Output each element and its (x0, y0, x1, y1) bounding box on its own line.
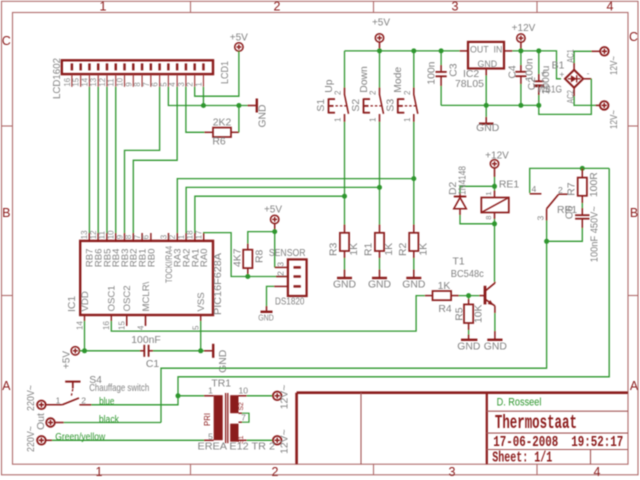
LCD1 pin 6 pad and stem (158, 63, 160, 70)
wire IC1 pin 17 (RA0) to sensor data (204, 233, 288, 277)
terminal 12V~ (bottom) (600, 101, 609, 110)
svg-text:5: 5 (192, 325, 201, 330)
svg-text:B: B (630, 206, 638, 220)
ground symbol GND (R3) (337, 277, 352, 279)
svg-text:4: 4 (607, 0, 614, 14)
terminal 12V~ (TR1 top) (273, 392, 282, 401)
junction rail/+12V/C4 (518, 48, 523, 53)
svg-text:1: 1 (369, 117, 378, 122)
svg-text:2: 2 (558, 185, 563, 195)
connector SENSOR body (288, 259, 307, 296)
svg-text:12V~: 12V~ (609, 110, 620, 129)
IC1 top pin 2 stub (176, 233, 178, 241)
svg-text:2K2: 2K2 (213, 117, 232, 128)
wire IC1 VSS pin down (200, 321, 202, 351)
junction S3 column / RA3 line (411, 176, 416, 181)
ground symbol GND (R1) (372, 277, 387, 279)
switch S3 (Mode) (413, 88, 415, 95)
SENSOR pin 3 stub (275, 266, 288, 268)
svg-text:B1: B1 (552, 60, 565, 71)
resistor R3 body (1K) (344, 225, 346, 233)
svg-text:1: 1 (56, 395, 61, 405)
svg-text:+5V: +5V (264, 205, 282, 216)
title block row line 1 (487, 410, 628, 412)
svg-text:12V~: 12V~ (280, 429, 291, 454)
junction rail/S2 (377, 48, 382, 53)
svg-text:220V~: 220V~ (26, 385, 37, 411)
connector LCD1 body (62, 60, 213, 74)
relay coil pin 8 to junction (494, 213, 496, 220)
svg-text:LCD1602: LCD1602 (52, 58, 63, 99)
IC1 top pin 11 stub (106, 233, 108, 241)
wire IC1 VDD pin to rail (84, 321, 86, 351)
title block divider thin (360, 393, 362, 465)
svg-text:8: 8 (484, 215, 493, 219)
svg-text:R8: R8 (255, 249, 266, 263)
svg-text:1: 1 (177, 234, 186, 239)
svg-text:GND: GND (478, 59, 498, 69)
svg-text:GND: GND (484, 341, 507, 352)
svg-text:1: 1 (194, 82, 203, 86)
wire rail down to S1 (344, 51, 346, 88)
svg-text:C: C (629, 30, 638, 44)
wire R6 to GND line (238, 106, 240, 133)
terminal 220V~ (neutral) (37, 436, 46, 445)
svg-text:+5V: +5V (230, 33, 248, 44)
svg-text:S1: S1 (316, 99, 327, 112)
svg-text:PRI: PRI (203, 413, 212, 426)
svg-text:A: A (630, 379, 639, 393)
svg-text:12: 12 (98, 78, 107, 87)
wire +12V to relay coil pin 1 (494, 177, 496, 191)
ground symbol GND (sensor) (261, 311, 273, 313)
ground symbol GND (T1 emitter) (487, 339, 502, 341)
ground symbol GND (LCD) (248, 105, 257, 107)
svg-text:1K: 1K (349, 243, 360, 256)
svg-text:100nF 450V~: 100nF 450V~ (589, 206, 600, 262)
diode D2 1N4148 (460, 186, 495, 193)
svg-text:7: 7 (133, 234, 142, 239)
wire LCD pin 12 to IC1 pin 11 (106, 87, 108, 233)
junction S2 column / RA2 line (377, 185, 382, 190)
junction VSS / gnd wire (198, 348, 203, 353)
capacitor C3 body (440, 51, 442, 65)
title block divider thick (486, 393, 488, 465)
svg-text:100R: 100R (589, 172, 600, 197)
supply +5V symbol (IC1) (71, 347, 79, 355)
svg-text:9: 9 (124, 82, 133, 86)
LCD1 pin 14 pad and stem (88, 63, 90, 70)
svg-text:GND: GND (218, 350, 229, 373)
frame row ticks right (628, 125, 638, 127)
capacitor C6 body (581, 196, 583, 203)
svg-text:11: 11 (107, 79, 116, 87)
svg-text:R4: R4 (438, 304, 452, 315)
wire coil pin8 junction to T1 collector (494, 224, 496, 282)
ground symbol GND (IC1) (204, 350, 213, 352)
svg-text:9: 9 (115, 234, 124, 239)
wire +5V to R8 top and sensor pin 3 (274, 224, 276, 232)
svg-text:6: 6 (142, 234, 151, 239)
switch S2 (Down) (379, 88, 381, 95)
IC1 top pin 9 stub (124, 233, 126, 241)
svg-text:OUT: OUT (470, 45, 489, 55)
svg-text:3: 3 (452, 0, 459, 14)
svg-text:2: 2 (274, 0, 281, 14)
switch S4 pin 1 stub (46, 404, 62, 406)
ground symbol GND (psu) (479, 122, 494, 124)
svg-text:OSC2: OSC2 (122, 285, 133, 311)
svg-text:4: 4 (532, 184, 537, 194)
LCD1 pin 11 pad and stem (115, 63, 117, 70)
svg-text:MCLR\: MCLR\ (141, 281, 152, 311)
svg-text:15: 15 (118, 321, 127, 330)
IC1 bottom pin 4 stub (145, 315, 147, 326)
wire contact pin4 net down to TR1 primary (178, 168, 609, 395)
svg-text:WB1G: WB1G (537, 85, 562, 96)
svg-text:78L05: 78L05 (455, 79, 484, 90)
junction +12V / D2 (492, 184, 497, 189)
svg-text:+12V: +12V (485, 150, 509, 161)
wire +5V to LCD pin 2 (195, 51, 239, 96)
svg-text:16: 16 (102, 321, 111, 330)
TR1 pin 1 stub (204, 395, 214, 397)
junction coil pin8 / D2 / T1 collector (492, 221, 497, 226)
ground symbol GND (R5) (461, 339, 477, 341)
junction gnd rail / C4 (518, 103, 523, 108)
TR1 pin 2 stub and wire to 12V~ terminal (239, 439, 247, 441)
svg-text:IN: IN (494, 45, 503, 55)
wire rail down to S2 (379, 51, 381, 88)
svg-text:16: 16 (63, 78, 72, 87)
svg-text:T1: T1 (453, 257, 465, 268)
title block outer lines (297, 391, 628, 394)
svg-text:GND: GND (457, 341, 480, 352)
svg-text:C6: C6 (565, 206, 576, 220)
wire junction to TR1 pin 1 (178, 395, 204, 397)
relay contact pin 3 stub (546, 209, 548, 221)
IC1 bottom pin 15 stub (126, 315, 128, 326)
svg-text:15: 15 (72, 77, 81, 86)
svg-text:TR1: TR1 (211, 378, 231, 389)
svg-text:8: 8 (124, 234, 133, 239)
svg-text:GND: GND (368, 279, 391, 290)
svg-text:RA0: RA0 (199, 249, 210, 268)
svg-text:Mode: Mode (393, 67, 404, 93)
svg-text:2: 2 (275, 271, 285, 276)
svg-text:8: 8 (133, 82, 142, 86)
IC1 bottom pin 5 stub (200, 315, 202, 321)
svg-text:C3: C3 (448, 63, 459, 77)
resistor R2 body (1K) (413, 225, 415, 233)
svg-text:13: 13 (80, 230, 89, 239)
junction LCD pin1 / GND line (201, 103, 206, 108)
wire IC1 pin 2 (RA3) to S3 column (177, 179, 413, 233)
svg-text:GND: GND (476, 123, 499, 134)
junction R8 / sensor data (245, 274, 250, 279)
wire AC1 to 12V~ terminal (573, 63, 575, 70)
svg-text:7: 7 (241, 413, 246, 423)
svg-text:PIC16F628A: PIC16F628A (213, 253, 224, 315)
wire LCD pin 6 to IC1 pin 9 (125, 87, 160, 233)
svg-text:1: 1 (334, 117, 343, 122)
frame row ticks left (2, 125, 13, 127)
svg-text:Up: Up (324, 79, 335, 93)
svg-text:1: 1 (96, 465, 103, 479)
svg-text:100n: 100n (426, 61, 437, 84)
LCD1 pin 7 pad and stem (150, 63, 152, 70)
svg-text:12V~: 12V~ (609, 56, 620, 75)
T1 collector stub (494, 282, 496, 283)
svg-text:B: B (2, 206, 10, 220)
TR1 pins 6-7 link (239, 412, 243, 414)
svg-text:2: 2 (81, 395, 86, 405)
svg-text:4: 4 (136, 325, 145, 330)
resistor R1 body (1K) (379, 225, 381, 233)
wire contact pin 3 down (546, 221, 548, 242)
wire S1 to resistor (344, 122, 346, 225)
transistor T1 body (484, 286, 487, 305)
wire LCD pin 5 to GND rail (168, 87, 247, 106)
svg-text:7: 7 (142, 82, 151, 86)
svg-text:C: C (2, 34, 11, 48)
svg-text:10: 10 (116, 77, 125, 86)
wire blue net S4 to TR1 (91, 396, 178, 405)
wire D2 anode to coil pin 8 (460, 215, 495, 224)
svg-text:3: 3 (159, 234, 168, 239)
junction S1 column / RA1 line (342, 194, 347, 199)
svg-text:2: 2 (369, 90, 378, 95)
svg-text:A: A (2, 379, 11, 393)
LCD1 pin 2 pad and stem (193, 63, 195, 70)
TR1 primary winding (214, 395, 223, 440)
svg-text:DS1820: DS1820 (275, 297, 305, 308)
svg-text:R3: R3 (329, 242, 340, 256)
wire GND rail under psu (441, 104, 539, 106)
title block row line 2 (487, 432, 628, 434)
svg-text:VSS: VSS (196, 292, 207, 311)
svg-text:RB0: RB0 (146, 249, 157, 268)
wire S2 to resistor (379, 122, 381, 225)
TR1 pin 5 stub (204, 439, 214, 441)
wire LCD pin 1 drop (202, 87, 204, 106)
LCD1 pin 3 pad and stem (185, 63, 187, 70)
wire LCD pin 11 to IC1 pin 10 (115, 87, 117, 233)
resistor R4 body (1K) (425, 295, 433, 297)
wire IN rail to bridge + (512, 51, 561, 79)
wire IC1 pin 18 (RA1) to S1 column (195, 196, 345, 233)
svg-text:Sheet: 1/1: Sheet: 1/1 (492, 450, 552, 467)
svg-text:3: 3 (275, 262, 285, 267)
SENSOR pin 1 stub and wire to GND (274, 285, 288, 287)
wire LCD pin 14 to IC1 pin 13 (88, 87, 90, 233)
svg-text:C2: C2 (527, 77, 538, 91)
svg-text:LCD1: LCD1 (220, 61, 231, 84)
switch S4 blade (62, 398, 79, 405)
svg-text:RE1: RE1 (499, 179, 519, 190)
junction +5V / R8 / sensor-vdd (272, 229, 277, 234)
switch S1 (Up) (344, 88, 346, 95)
svg-text:14: 14 (75, 321, 84, 330)
svg-text:4: 4 (594, 465, 601, 479)
svg-text:2: 2 (186, 82, 195, 86)
svg-text:3: 3 (177, 82, 186, 86)
svg-text:17-06-2008 19:52:17: 17-06-2008 19:52:17 (493, 434, 623, 451)
resistor R7 body (100R) (581, 168, 583, 177)
wire S3 to resistor (413, 122, 415, 225)
IC1 top pin 1 stub (185, 233, 187, 241)
svg-text:Thermostaat: Thermostaat (495, 412, 577, 434)
resistor R5 body (10K) (468, 296, 470, 299)
terminal 12V~ (TR1 bottom) (273, 436, 282, 445)
relay RE1 coil body (481, 198, 509, 213)
svg-text:11: 11 (98, 230, 107, 239)
svg-text:OSC1: OSC1 (107, 285, 118, 311)
svg-text:Green/yellow: Green/yellow (55, 432, 106, 443)
svg-text:BC548c: BC548c (451, 269, 484, 280)
capacitor C2 body (electrolytic) (538, 51, 540, 74)
wire rail down to S3 (413, 51, 415, 88)
LCD1 pin 9 pad and stem (132, 63, 134, 70)
IC2 OUT pin stub (460, 50, 468, 52)
LCD1 pin 10 pad and stem (123, 63, 125, 70)
T1 emitter to GND (494, 306, 496, 313)
svg-text:4K7: 4K7 (233, 248, 244, 267)
svg-text:SENSOR: SENSOR (269, 248, 306, 259)
svg-text:2: 2 (272, 465, 279, 479)
LCD1 pin 4 pad and stem (176, 63, 178, 70)
svg-text:1K: 1K (438, 281, 451, 292)
svg-text:GND: GND (402, 279, 425, 290)
wire IC2 GND pin to ground symbol (485, 69, 487, 76)
IC U1 PIC16F628A body (80, 241, 213, 315)
svg-text:12V~: 12V~ (280, 385, 291, 410)
svg-text:6: 6 (151, 82, 160, 86)
frame column ticks bottom (190, 464, 192, 475)
IC1 top pin 18 stub (194, 233, 196, 241)
svg-text:+5V: +5V (372, 18, 390, 29)
IC1 top pin 3 stub (168, 233, 170, 241)
relay contact pin 2 stub (558, 193, 567, 195)
supply +12V symbol (psu) (517, 34, 525, 42)
relay contact blade (547, 195, 559, 209)
svg-text:1N4148: 1N4148 (458, 166, 469, 195)
IC2 IN pin stub (504, 50, 512, 52)
terminal 220V~ (line in) (37, 401, 46, 410)
svg-text:220V~: 220V~ (26, 426, 37, 452)
wire IC1 pin 1 (RA2) to S2 column (186, 187, 379, 233)
supply +5V symbol (switch rail) (375, 34, 383, 42)
junction blue/TR1/relay-feed (176, 393, 181, 398)
junction pin3/C6 (544, 239, 549, 244)
svg-text:GND: GND (258, 314, 274, 323)
junction R6 / GND line (236, 103, 241, 108)
supply +5V symbol (LCD) (235, 43, 243, 51)
junction gnd rail / IC2 GND (484, 103, 489, 108)
wire contact pin 4 net (top) (530, 168, 610, 193)
wire C6 bottom to contact pin 3 (547, 228, 583, 241)
svg-text:Down: Down (359, 66, 370, 93)
LCD1 pin 5 pad and stem (167, 63, 169, 70)
svg-text:2: 2 (334, 90, 343, 95)
wire bridge minus to GND rail (583, 78, 591, 80)
junction rail/C3 (439, 48, 444, 53)
junction R7 top (580, 166, 585, 171)
svg-text:R5: R5 (455, 307, 466, 321)
capacitor C1 plates (143, 345, 145, 357)
IC1 top pin 8 stub (132, 233, 134, 241)
TR1 secondary winding S1 (bottom) (230, 424, 238, 442)
svg-text:14: 14 (80, 77, 89, 86)
wire IC1 pin 16 to R4 (base drive) (111, 296, 425, 332)
supply +5V symbol (sensor) (271, 215, 279, 223)
svg-text:17: 17 (195, 230, 204, 239)
svg-text:C4: C4 (507, 65, 518, 79)
wire C3 to gnd rail (440, 86, 442, 105)
svg-text:10: 10 (107, 230, 116, 239)
svg-text:black: black (99, 414, 120, 425)
svg-text:R2: R2 (398, 242, 409, 256)
supply +12V symbol (relay) (490, 160, 498, 168)
svg-text:3: 3 (536, 216, 546, 221)
TR1 pin 10 stub and wire to 12V~ terminal (239, 395, 247, 397)
resistor R1 lead to ground (379, 251, 381, 258)
wire R4 to T1 base (459, 295, 480, 297)
svg-text:10K: 10K (474, 304, 485, 323)
IC1 top pin 10 stub (115, 233, 117, 241)
terminal 12V~ (top) (600, 47, 609, 56)
junction rail/C2 (536, 48, 541, 53)
wire LCD pin 4 to IC1 pin 8 (133, 87, 177, 233)
resistor R3 lead to ground (344, 251, 346, 258)
SENSOR pin bars inside (294, 266, 301, 268)
svg-text:1: 1 (484, 191, 493, 195)
LCD1 pin 12 pad and stem (106, 63, 108, 70)
IC1 top pin 13 stub (88, 233, 90, 241)
wire AC2 to 12V~ terminal (573, 88, 575, 97)
svg-text:1: 1 (208, 386, 213, 396)
LCD1 pin 15 pad and stem (79, 63, 81, 70)
LCD1 pin 8 pad and stem (141, 63, 143, 70)
svg-text:1K: 1K (419, 243, 430, 256)
svg-text:2: 2 (403, 90, 412, 95)
TR1 core (225, 393, 227, 443)
SENSOR pin 2 stub (276, 276, 288, 278)
wire LCD pin 13 to IC1 pin 12 (97, 87, 99, 233)
svg-text:R7: R7 (567, 182, 578, 196)
wire contact pin3 net to Out terminal (down-left) (161, 241, 547, 422)
relay contact RE1 pin 4 stub (530, 193, 542, 195)
capacitor C4 body (520, 51, 522, 65)
svg-text:13: 13 (89, 78, 98, 87)
svg-text:1: 1 (100, 0, 107, 14)
wire Green/yellow net to TR1 pin 5 (46, 439, 52, 441)
title block small cell divider (590, 450, 592, 465)
switch S4 pin 2 stub (79, 404, 91, 406)
wire C1 to GND (153, 350, 204, 352)
LCD1 pin 1 pad and stem (202, 63, 204, 70)
svg-text:+12V: +12V (512, 23, 536, 34)
junction rail/S3 (411, 48, 416, 53)
wire +5V rail across switches to IC2 OUT (345, 50, 460, 52)
svg-text:S2: S2 (351, 99, 362, 112)
svg-text:5: 5 (208, 432, 213, 442)
junction VDD / rail (82, 348, 87, 353)
resistor R6 body (204, 131, 213, 133)
terminal Out (switched line) (46, 418, 55, 427)
svg-text:EREA E12 TR 2: EREA E12 TR 2 (198, 442, 276, 453)
svg-text:R6: R6 (212, 137, 226, 148)
